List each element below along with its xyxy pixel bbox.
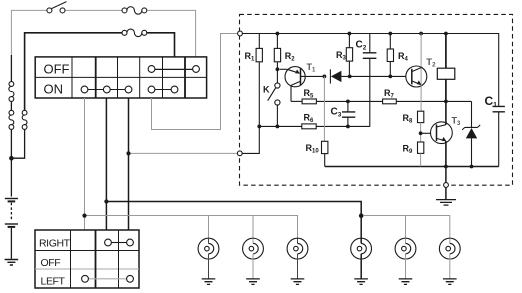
switch K (268, 83, 280, 127)
ground flasher (436, 200, 456, 206)
wire right side down from C1 to bottom rail (498, 112, 500, 167)
wire flasher output gray to node2 (129, 152, 238, 154)
transistor T3 (421, 101, 453, 166)
wire black right-turn feed (106, 202, 361, 239)
svg-text:RIGHT: RIGHT (39, 238, 71, 250)
wire supply rail (242, 34, 498, 106)
junction C3 top (346, 100, 350, 104)
wire T3 emitter to node3 (445, 167, 447, 200)
ground lamp L5 (399, 279, 413, 285)
transistor T2 (406, 34, 427, 112)
fuse F1 on left wire (9, 82, 14, 102)
contact RIGHT row (105, 239, 134, 246)
junction T3 emitter / rail (444, 165, 448, 169)
lamp L1 (198, 238, 219, 279)
junction battery node (9, 156, 14, 161)
wire R6 line (259, 125, 370, 127)
junction dots on rail (276, 32, 448, 36)
svg-text:K: K (263, 84, 270, 94)
circuit breaker row 2 (122, 29, 147, 36)
junction col3/node2 (126, 151, 130, 155)
circuit breaker row 1 (122, 7, 147, 14)
contact ON row col1-col2-col3 (81, 86, 132, 93)
wire col4 gray supply loop to flasher (152, 34, 238, 130)
wire col1 gray down to lamps left (84, 98, 86, 230)
lamp L5 (395, 238, 416, 279)
node terminal 2 (output) (237, 151, 242, 156)
wire T1 base to R10 (gray) (323, 76, 325, 141)
junction C3 bottom (346, 125, 350, 129)
wire bottom rail (325, 166, 499, 168)
junction diode/R3 (348, 75, 352, 79)
wire col2 black down (105, 98, 107, 230)
junction zener / rail (470, 165, 474, 169)
wire R8 to R9 (gray) (420, 123, 422, 142)
resistor R8 (418, 111, 424, 122)
wire gray right-lamps bus (363, 216, 450, 239)
wire T1 collector to R5 (291, 100, 302, 102)
svg-text:ON: ON (44, 82, 64, 97)
wire row1 gray feed (11, 10, 195, 57)
wire R5 to R7 (316, 100, 471, 102)
junction R1 bottom (257, 125, 261, 129)
zener diode VD2 (462, 101, 480, 166)
capacitor C1 (493, 106, 505, 111)
fuse F3 on right wire (22, 110, 27, 129)
capacitor C3 (342, 112, 355, 117)
contact OFF row col4-col6 (148, 66, 199, 73)
contact ON row col4-col5 (148, 86, 178, 93)
wire node2 to R6 line (242, 126, 259, 153)
fuse F2 on left wire (9, 110, 14, 129)
wire gray left-lamps bus (85, 216, 298, 239)
turn signal switch table (RIGHT/OFF/LEFT) (35, 230, 139, 288)
node terminal 1 (supply) (238, 31, 243, 36)
ground lamp L3 (291, 279, 305, 285)
junction R2/K/T1 (276, 67, 280, 71)
resistor R3 (346, 34, 352, 75)
junction R4 bottom (388, 75, 392, 79)
hazard switch table (OFF/ON) (35, 57, 206, 98)
resistor R1 (256, 34, 262, 127)
contact LEFT row (82, 275, 134, 282)
resistor R10 (322, 141, 328, 166)
battery GB (5, 199, 18, 259)
junction T1 base / R10 (323, 75, 327, 79)
junction col1 (82, 214, 86, 218)
wire col3 black down (128, 98, 130, 230)
junction col2 (104, 199, 108, 203)
lamp L3 (287, 238, 308, 279)
resistor R6 (302, 124, 316, 129)
resistor R2 (274, 34, 280, 84)
ground lamp L2 (246, 279, 260, 285)
junction K bottom (276, 125, 280, 129)
ground battery (5, 260, 19, 266)
capacitor C2 (363, 53, 377, 59)
flasher unit dashed enclosure (240, 14, 513, 185)
svg-text:OFF: OFF (41, 257, 61, 269)
transistor T1 (280, 67, 325, 102)
lamp L2 (243, 238, 264, 279)
junction right lamp node (359, 213, 364, 218)
wire row2 black feed (25, 33, 175, 110)
svg-text:LEFT: LEFT (41, 275, 66, 287)
switch S1 (open switch, row 1) (47, 2, 67, 13)
wire R9 to bottom rail (gray) (420, 153, 422, 166)
relay winding Y (437, 34, 455, 102)
wire left vertical below fuses (11, 55, 24, 197)
lamp L6 (439, 238, 460, 279)
ground lamp L6 (443, 279, 457, 285)
lamp L4 active (351, 238, 372, 279)
resistor R9 (418, 142, 424, 153)
svg-text:OFF: OFF (44, 61, 70, 76)
junction R7/relay (444, 100, 448, 104)
resistor R4 (387, 34, 393, 75)
diode VD1 (330, 69, 411, 83)
junction T3 base (419, 131, 423, 135)
ground lamp L1 (202, 279, 216, 285)
ground lamp L4 (354, 279, 368, 285)
resistor R7 (383, 99, 397, 104)
resistor R5 (302, 99, 316, 104)
node terminal 3 (ground) (444, 183, 449, 188)
